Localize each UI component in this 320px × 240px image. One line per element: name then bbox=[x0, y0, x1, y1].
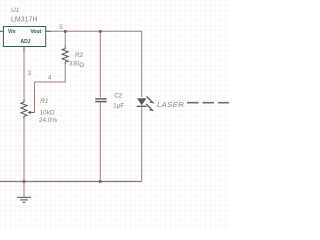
svg-text:LASER: LASER bbox=[157, 100, 184, 109]
svg-text:Ω: Ω bbox=[79, 62, 84, 69]
svg-text:Vout: Vout bbox=[30, 29, 41, 35]
svg-text:U1: U1 bbox=[11, 7, 20, 14]
svg-text:Vin: Vin bbox=[8, 29, 16, 35]
svg-text:LM317H: LM317H bbox=[11, 17, 37, 24]
svg-text:3: 3 bbox=[28, 70, 32, 77]
svg-text:24.0%: 24.0% bbox=[39, 117, 57, 124]
svg-text:5: 5 bbox=[59, 24, 63, 31]
svg-text:4: 4 bbox=[48, 75, 52, 82]
svg-text:10kΩ: 10kΩ bbox=[40, 109, 55, 116]
svg-text:R1: R1 bbox=[40, 98, 49, 105]
svg-text:C2: C2 bbox=[114, 92, 123, 99]
svg-text:1µF: 1µF bbox=[113, 102, 124, 109]
svg-text:R2: R2 bbox=[75, 52, 84, 59]
svg-text:ADJ: ADJ bbox=[20, 39, 30, 45]
